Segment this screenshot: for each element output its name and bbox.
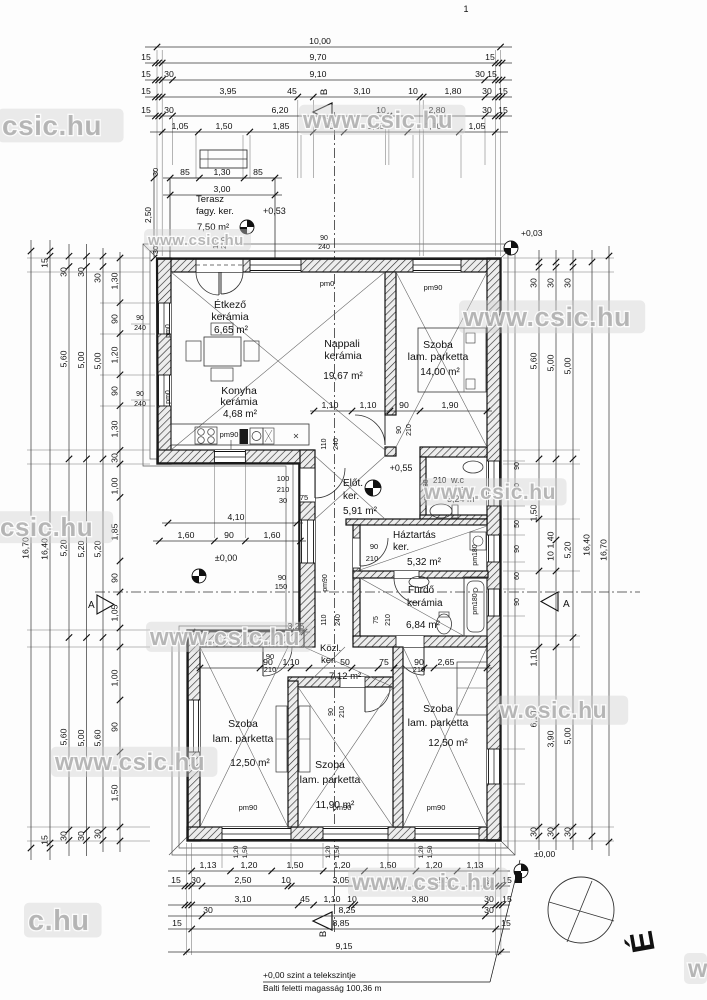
svg-text:1,20: 1,20	[334, 860, 351, 870]
svg-text:10: 10	[408, 86, 418, 96]
bathtub	[464, 577, 487, 636]
svg-text:ker.: ker.	[321, 655, 336, 666]
svg-text:Nappali: Nappali	[324, 338, 360, 350]
section line A-A horizontal	[95, 591, 640, 593]
svg-text:90: 90	[328, 708, 335, 716]
svg-text:www.csic.hu: www.csic.hu	[149, 624, 300, 651]
terrace outline	[170, 178, 275, 258]
left col windows lower	[119, 660, 121, 852]
svg-text:+0,03: +0,03	[521, 228, 543, 238]
svg-text:90: 90	[136, 391, 144, 398]
kitchen stove	[195, 427, 217, 444]
svg-text:www.csic.hu: www.csic.hu	[351, 869, 496, 895]
window bedroom1 bottom	[222, 827, 291, 841]
svg-text:csic.hu: csic.hu	[2, 110, 102, 141]
wall outer bottom	[187, 827, 501, 841]
svg-text:15: 15	[487, 69, 497, 79]
svg-text:1,10: 1,10	[283, 657, 300, 667]
svg-text:1,80: 1,80	[445, 86, 462, 96]
roof eave outline	[143, 244, 515, 855]
door bedroom2 arc	[365, 687, 390, 712]
svg-text:4,10: 4,10	[228, 512, 245, 522]
svg-text:60: 60	[514, 572, 521, 580]
left col totals2	[86, 244, 88, 856]
svg-text:45: 45	[300, 894, 310, 904]
svg-text:www.csic.hu: www.csic.hu	[302, 107, 453, 134]
svg-text:240: 240	[335, 614, 342, 626]
svg-text:30: 30	[545, 278, 555, 288]
svg-text:240: 240	[134, 401, 146, 408]
svg-text:30: 30	[482, 86, 492, 96]
dimension row 10,00	[145, 46, 512, 48]
svg-text:3,05: 3,05	[333, 875, 350, 885]
svg-text:pm90: pm90	[322, 574, 329, 592]
benchmark circle bottom	[514, 864, 528, 878]
svg-text:10,00: 10,00	[309, 36, 331, 46]
svg-text:kerámia: kerámia	[407, 598, 443, 609]
wardrobe bedroom1	[276, 706, 287, 772]
section marker B top	[313, 103, 332, 121]
door bedroom3 arc	[396, 647, 424, 675]
window kitchen bottom	[214, 450, 245, 464]
svg-text:15: 15	[39, 258, 49, 268]
dim row bottom E 8,85	[168, 928, 510, 930]
svg-text:30: 30	[562, 278, 572, 288]
door bedroom1 arc	[263, 647, 292, 676]
svg-text:1,50: 1,50	[242, 845, 249, 858]
svg-text:30: 30	[151, 168, 160, 176]
right col 2	[555, 250, 557, 850]
svg-text:90: 90	[266, 652, 274, 661]
wall szoba bottom	[420, 447, 487, 457]
svg-text:210: 210	[339, 706, 346, 718]
dim row bottom F 9,15	[168, 951, 510, 953]
left col 16,40	[49, 240, 51, 860]
svg-text:1,50: 1,50	[109, 784, 119, 801]
dim row 1,60-90-1,60	[153, 540, 306, 542]
svg-text:1,30: 1,30	[109, 420, 119, 437]
svg-text:Közl.: Közl.	[320, 643, 341, 654]
svg-text:www.csic.hu: www.csic.hu	[54, 749, 205, 776]
kitchen sink	[250, 428, 263, 444]
svg-text:±0,00: ±0,00	[215, 553, 237, 563]
svg-text:8,25: 8,25	[339, 905, 356, 915]
right col 16,70	[608, 246, 610, 856]
svg-text:±0,00: ±0,00	[534, 849, 555, 859]
door bedroom3 gap	[396, 636, 424, 647]
svg-text:3,10: 3,10	[354, 86, 371, 96]
door haztartas gap	[353, 538, 360, 568]
svg-text:9,10: 9,10	[310, 69, 327, 79]
svg-text:1,10: 1,10	[360, 400, 377, 410]
svg-text:30: 30	[76, 831, 86, 841]
svg-text:1,50: 1,50	[216, 121, 233, 131]
svg-text:1,20: 1,20	[233, 845, 240, 858]
wall haztartas top	[346, 519, 487, 525]
svg-text:210: 210	[406, 424, 413, 436]
svg-text:4,68 m²: 4,68 m²	[223, 409, 258, 420]
watermark 8	[496, 696, 628, 725]
svg-text:2,50: 2,50	[235, 875, 252, 885]
svg-text:6,20: 6,20	[272, 105, 289, 115]
svg-text:90: 90	[514, 598, 521, 606]
svg-text:1,50: 1,50	[427, 845, 434, 858]
svg-text:30: 30	[475, 69, 485, 79]
svg-text:30: 30	[164, 105, 174, 115]
svg-text:15: 15	[39, 835, 49, 845]
svg-text:9,70: 9,70	[310, 52, 327, 62]
entry door arc	[315, 468, 345, 498]
svg-text:30: 30	[528, 827, 538, 837]
svg-text:15: 15	[141, 69, 151, 79]
svg-text:30: 30	[92, 829, 102, 839]
room cross diagonals	[171, 272, 385, 450]
svg-text:90: 90	[109, 386, 119, 396]
svg-text:90: 90	[278, 573, 286, 582]
svg-text:fagy. ker.: fagy. ker.	[196, 206, 234, 217]
dimension row 9,10	[145, 79, 512, 81]
dim row bottom B	[168, 885, 510, 887]
svg-text:10: 10	[281, 875, 291, 885]
svg-text:5,91 m²: 5,91 m²	[343, 506, 378, 517]
svg-text:30: 30	[58, 831, 68, 841]
svg-text:5,00: 5,00	[76, 351, 86, 368]
dim row bottom D 8,25	[168, 915, 510, 917]
wall nappali/szoba vertical	[385, 272, 396, 415]
svg-text:90: 90	[396, 426, 403, 434]
svg-text:Szoba: Szoba	[423, 339, 453, 351]
right col 1	[538, 250, 540, 850]
svg-text:lam. parketta: lam. parketta	[408, 717, 469, 729]
svg-text:85: 85	[253, 167, 263, 177]
svg-text:1,30: 1,30	[214, 167, 231, 177]
terrace left chain	[153, 170, 155, 258]
svg-text:kerámia: kerámia	[220, 396, 258, 408]
svg-text:pm0: pm0	[320, 279, 335, 288]
svg-text:10: 10	[545, 551, 555, 561]
terrace door arcs	[196, 272, 219, 295]
level marker terrace	[240, 220, 254, 234]
svg-text:45: 45	[287, 86, 297, 96]
svg-text:5,00: 5,00	[562, 727, 572, 744]
svg-text:1,50: 1,50	[334, 845, 341, 858]
svg-text:pm90: pm90	[427, 803, 446, 812]
svg-text:9,15: 9,15	[336, 941, 353, 951]
svg-text:240: 240	[318, 244, 330, 251]
svg-text:1,30: 1,30	[109, 272, 119, 289]
svg-text:15: 15	[501, 918, 511, 928]
svg-text:210: 210	[277, 485, 290, 494]
dim row corridor	[196, 667, 492, 669]
svg-text:90: 90	[399, 400, 409, 410]
kitchen counter	[171, 424, 309, 445]
wc toilet	[430, 504, 452, 518]
window szoba top	[413, 258, 461, 272]
window bedroom3 bottom	[415, 827, 479, 841]
svg-text:30: 30	[528, 278, 538, 288]
kitchen window extension lines	[213, 464, 215, 538]
svg-text:Háztartás: Háztartás	[393, 530, 436, 541]
svg-text:ker.: ker.	[343, 491, 359, 502]
svg-text:Étkező: Étkező	[214, 298, 246, 311]
svg-text:15: 15	[498, 105, 508, 115]
north circle	[548, 877, 614, 943]
svg-text:75: 75	[379, 657, 389, 667]
svg-text:85: 85	[180, 167, 190, 177]
svg-text:pm90: pm90	[239, 803, 258, 812]
left extension lines	[27, 257, 150, 259]
svg-text:7,12 m²: 7,12 m²	[329, 671, 361, 682]
window wc right	[487, 461, 501, 506]
svg-text:1,85: 1,85	[273, 121, 290, 131]
svg-text:1,05: 1,05	[109, 604, 119, 621]
svg-text:15: 15	[498, 86, 508, 96]
wall outer top	[157, 258, 501, 272]
window bedroom3 right	[487, 749, 501, 784]
svg-text:www.csic.hu: www.csic.hu	[147, 232, 244, 249]
svg-text:kerámia: kerámia	[211, 311, 249, 323]
dimension row 1,05-1,50-1,85-90-1,85-1,50-1,05	[150, 131, 508, 133]
level marker top right	[504, 241, 518, 255]
svg-text:3,00: 3,00	[214, 184, 231, 194]
dim row bottom windows	[168, 870, 510, 872]
svg-text:5,32 m²: 5,32 m²	[407, 557, 442, 568]
wc sink	[463, 461, 483, 473]
svg-text:15: 15	[141, 52, 151, 62]
svg-text:1,20: 1,20	[418, 845, 425, 858]
section line B-B vertical	[334, 112, 336, 935]
svg-text:210: 210	[413, 665, 426, 674]
svg-text:150: 150	[275, 582, 288, 591]
svg-text:15: 15	[141, 105, 151, 115]
door szoba gap wall segment	[385, 447, 396, 456]
svg-text:15: 15	[141, 86, 151, 96]
svg-text:3,95: 3,95	[220, 86, 237, 96]
svg-text:+0,00 szint a telekszintje: +0,00 szint a telekszintje	[263, 970, 356, 980]
svg-text:5,60: 5,60	[58, 350, 68, 367]
svg-text:75: 75	[373, 616, 380, 624]
svg-text:90: 90	[514, 545, 521, 553]
svg-text:pm0: pm0	[165, 324, 172, 338]
svg-text:30: 30	[92, 273, 102, 283]
svg-text:90: 90	[370, 542, 378, 551]
dim row 3,25	[186, 631, 310, 633]
level marker elot	[365, 480, 381, 496]
window bedroom2 bottom	[323, 827, 388, 841]
svg-text:5,60: 5,60	[528, 352, 538, 369]
window haztartas right	[487, 535, 501, 562]
svg-text:pm0: pm0	[165, 390, 172, 404]
svg-text:30: 30	[545, 827, 555, 837]
svg-text:6,65 m²: 6,65 m²	[214, 325, 249, 336]
svg-text:1,60: 1,60	[178, 530, 195, 540]
svg-text:90: 90	[514, 462, 521, 470]
svg-text:210: 210	[366, 554, 379, 563]
svg-text:50: 50	[340, 657, 350, 667]
svg-text:5,20: 5,20	[562, 541, 572, 558]
dimension row 3,95-45-3,10-10-1,80	[145, 96, 512, 98]
wall outer right	[487, 258, 501, 841]
svg-text:1,50: 1,50	[528, 504, 538, 521]
svg-text:30: 30	[164, 69, 174, 79]
svg-text:75: 75	[300, 493, 308, 502]
wall bedroom2 top	[288, 677, 393, 687]
benchmark leader	[430, 981, 490, 983]
svg-text:c.hu: c.hu	[28, 905, 90, 937]
window furdo right	[487, 589, 501, 616]
svg-text:B: B	[318, 931, 329, 937]
door haztartas arc	[360, 538, 388, 566]
window konyha left	[157, 375, 171, 406]
svg-text:30: 30	[484, 905, 494, 915]
svg-text:A: A	[563, 599, 570, 610]
window etkezo top	[250, 258, 301, 272]
svg-text:2,65: 2,65	[438, 657, 455, 667]
door furdo arc	[394, 578, 419, 603]
wall bedroom3 left	[393, 647, 403, 827]
svg-text:www.csic.hu: www.csic.hu	[462, 302, 631, 332]
terrace steps	[200, 150, 247, 168]
svg-text:3,10: 3,10	[235, 894, 252, 904]
watermark 5	[0, 511, 113, 543]
svg-text:pm90: pm90	[220, 430, 239, 439]
svg-text:12,50 m²: 12,50 m²	[230, 758, 270, 769]
svg-text:5,00: 5,00	[92, 352, 102, 369]
svg-text:Balti feletti magasság 100,36: Balti feletti magasság 100,36 m	[263, 983, 382, 993]
watermark 2	[299, 105, 465, 135]
svg-text:90: 90	[109, 573, 119, 583]
svg-text:pm90: pm90	[333, 803, 352, 812]
svg-text:w.csic.hu: w.csic.hu	[499, 697, 607, 723]
wall lower wing top-left	[187, 630, 304, 647]
svg-text:1: 1	[463, 4, 468, 14]
watermark 11	[420, 478, 567, 505]
svg-text:w: w	[687, 955, 707, 983]
svg-text:Szoba: Szoba	[423, 703, 453, 715]
svg-text:30: 30	[76, 267, 86, 277]
svg-text:110: 110	[321, 614, 328, 625]
svg-text:30: 30	[203, 905, 213, 915]
svg-text:15: 15	[172, 918, 182, 928]
svg-text:210: 210	[264, 665, 277, 674]
section marker B bottom	[313, 912, 332, 930]
window lower-left	[187, 700, 200, 752]
wall step vertical	[300, 450, 315, 647]
svg-text:1,40: 1,40	[545, 531, 555, 548]
wardrobe bedroom3	[457, 662, 487, 715]
svg-text:5,00: 5,00	[545, 354, 555, 371]
wardrobe bedroom2	[299, 706, 310, 772]
window etkezo left	[157, 303, 171, 334]
svg-text:30: 30	[482, 105, 492, 115]
svg-text:pm90: pm90	[424, 283, 443, 292]
svg-text:12,50 m²: 12,50 m²	[428, 738, 468, 749]
svg-text:240: 240	[134, 325, 146, 332]
svg-text:1,05: 1,05	[172, 121, 189, 131]
svg-text:19,67 m²: 19,67 m²	[323, 371, 363, 382]
watermark 6	[146, 622, 312, 652]
svg-text:kerámia: kerámia	[324, 350, 362, 362]
watermark 4	[144, 229, 251, 251]
bottom extension lines	[186, 843, 188, 955]
svg-text:240: 240	[333, 438, 340, 450]
svg-text:ker.: ker.	[393, 542, 409, 553]
watermark 7	[51, 747, 217, 777]
svg-text:16,40: 16,40	[581, 534, 591, 556]
watermark 9	[348, 868, 508, 897]
right col 16,40	[591, 250, 593, 850]
left col 5,60-5,20-5,60	[68, 244, 70, 856]
furdo sink	[409, 577, 429, 588]
wall bedroom1 right partition	[288, 681, 298, 827]
svg-text:Szoba: Szoba	[315, 759, 345, 771]
window terrace door opening	[196, 258, 243, 272]
svg-text:1,50: 1,50	[287, 860, 304, 870]
svg-text:B: B	[319, 89, 330, 95]
svg-text:1,90: 1,90	[442, 400, 459, 410]
wall outer left upper	[157, 258, 171, 464]
exterior wall outer rim	[157, 259, 501, 840]
svg-text:1,20: 1,20	[325, 845, 332, 858]
svg-text:+0,53: +0,53	[263, 206, 286, 216]
svg-text:1,20: 1,20	[241, 860, 258, 870]
svg-text:Terasz: Terasz	[196, 194, 224, 205]
svg-text:5,00: 5,00	[562, 357, 572, 374]
left col 16,70	[30, 240, 32, 860]
terrace dim 85-1,30-85	[163, 177, 282, 179]
svg-text:1,60: 1,60	[264, 530, 281, 540]
svg-text:30: 30	[58, 267, 68, 277]
svg-text:1,00: 1,00	[109, 477, 119, 494]
svg-text:100: 100	[277, 474, 290, 483]
svg-text:30: 30	[191, 875, 201, 885]
svg-text:lam. parketta: lam. parketta	[213, 733, 274, 745]
left col windows	[119, 252, 121, 660]
furdo wc	[437, 614, 452, 634]
svg-text:Fürdő: Fürdő	[408, 585, 435, 596]
svg-text:lam. parketta: lam. parketta	[300, 774, 361, 786]
bed szoba top-right	[418, 328, 486, 392]
svg-text:1,05: 1,05	[469, 121, 486, 131]
wall wc bottom	[420, 515, 487, 519]
dimension row 9,70	[145, 62, 512, 64]
svg-text:90: 90	[320, 235, 328, 242]
svg-text:5,00: 5,00	[76, 729, 86, 746]
svg-text:15: 15	[485, 52, 495, 62]
svg-text:16,70: 16,70	[598, 539, 608, 561]
svg-text:210: 210	[385, 614, 392, 626]
svg-text:1,10: 1,10	[528, 649, 538, 666]
dim row 4,10	[162, 522, 303, 524]
wall haztartas-furdo left	[353, 525, 360, 640]
svg-text:+0,55: +0,55	[390, 463, 413, 473]
right col 3	[572, 250, 574, 850]
wall wc left	[420, 457, 426, 519]
wall kitchen bottom	[157, 450, 314, 464]
svg-text:30: 30	[562, 827, 572, 837]
svg-text:30: 30	[109, 453, 119, 463]
door szoba arc	[355, 415, 385, 445]
svg-text:1,00: 1,00	[109, 669, 119, 686]
svg-text:1,10: 1,10	[322, 400, 339, 410]
window step wall	[300, 520, 315, 563]
dim row bottom C	[168, 904, 510, 906]
entry door opening	[300, 468, 315, 502]
left col 5,00s	[102, 248, 104, 852]
svg-text:Előt.: Előt.	[343, 478, 363, 489]
wall furdo bottom thick	[353, 636, 487, 647]
watermark 3	[459, 300, 645, 333]
